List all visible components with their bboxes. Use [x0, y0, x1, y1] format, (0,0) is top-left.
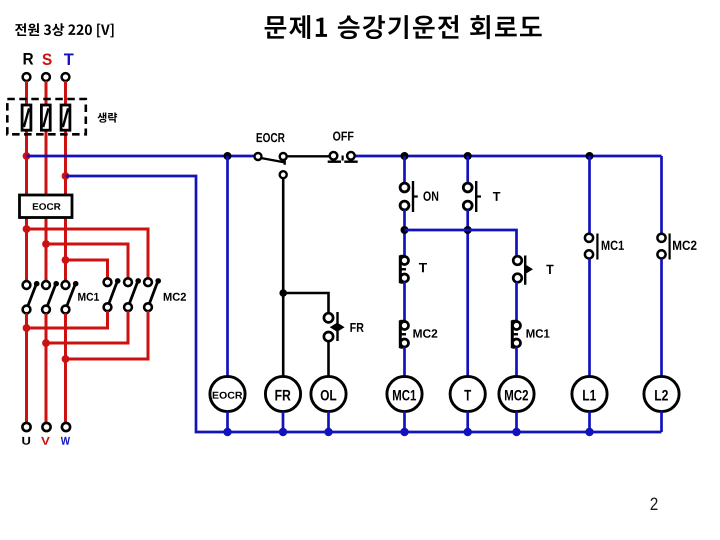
label MC2 (interlock) [413, 329, 437, 338]
terminal T [62, 73, 70, 81]
label OFF [333, 132, 354, 141]
label T [64, 54, 74, 66]
MC2 main contact pole3 [144, 278, 161, 311]
wire MC1 interlock to MC2 coil [515, 347, 518, 377]
node bottom MC2 [512, 428, 520, 436]
node bus-L1 branch [586, 152, 594, 160]
label V [41, 437, 50, 445]
MC1 auxiliary contact (NO) on L1 branch [585, 234, 598, 260]
node bottom T [464, 428, 472, 436]
label R [24, 53, 34, 65]
node bus-EOCR coil [224, 152, 232, 160]
label 생략 [98, 113, 118, 123]
node T-MC2 feed [62, 256, 70, 264]
label: power source 전원 3상 220[V] [15, 23, 114, 37]
coil L2 [644, 376, 679, 411]
FR flasher contact [324, 312, 345, 341]
label T (pushbutton) [493, 192, 500, 201]
wire T to MC2 left column [66, 260, 108, 278]
OFF pushbutton (NC) [328, 152, 358, 162]
coil T [450, 376, 485, 411]
terminal R [23, 73, 31, 81]
MC2 auxiliary contact (NO) on L2 branch [657, 234, 669, 260]
label MC2 (main contacts) [164, 293, 186, 301]
node bottom L1 [585, 428, 593, 436]
wire control bus right [355, 155, 662, 158]
wire return bus (left vertical and bottom bus) [66, 176, 662, 432]
wire T branch upper [466, 156, 469, 183]
MC1 main contact pole2 [42, 281, 59, 313]
wire MC1 aux to L1 coil [588, 259, 591, 377]
node: R tap to control bus [23, 152, 31, 160]
breaker dashed enclosure [7, 99, 86, 134]
terminal V [42, 423, 50, 431]
node bottom EOCR [223, 428, 231, 436]
wire T branch to T coil [466, 210, 469, 377]
wire T phase down [64, 81, 67, 285]
wire EOCR contact to OFF [287, 155, 330, 157]
label MC1 (interlock) [527, 329, 550, 338]
label T (timer contact, MC2 branch) [546, 265, 553, 274]
label T (timer contact, MC1 branch) [419, 263, 427, 272]
label EOCR (contact) [257, 133, 285, 142]
wire EOCR coil to bottom bus [226, 412, 229, 433]
wire U column down [25, 313, 28, 423]
wire MC2 pole3 to W node [66, 311, 149, 359]
MC1 main contact pole3 [62, 281, 79, 313]
node V join [42, 339, 50, 347]
page number 2 [651, 498, 658, 511]
terminal S [42, 73, 50, 81]
title 문제1 승강기운전 회로도 [265, 15, 542, 39]
wire S phase down [45, 81, 48, 285]
node W join [62, 355, 70, 363]
wire to FR flasher contact [283, 293, 328, 314]
coil FR [265, 376, 300, 411]
EOCR overcurrent relay box [20, 195, 73, 218]
node MC1-branch cross [401, 226, 409, 234]
wire control bus left [27, 155, 255, 158]
wire W column down [64, 313, 67, 423]
wire T arrow contact to MC1 interlock [515, 282, 518, 321]
MC1 interlock contact (NC) on MC2 branch [512, 320, 520, 348]
node S-MC2 feed [42, 240, 50, 248]
fuse F1 (R) [22, 105, 31, 130]
label MC1 (aux contact) [602, 241, 624, 250]
wire FR contact to OL coil [327, 341, 330, 376]
fuse F3 (T) [61, 105, 70, 130]
MC2 interlock contact (NC) on MC1 branch [400, 320, 408, 348]
wire ON to T contact [403, 210, 406, 257]
coil L1 [572, 376, 607, 411]
wire L2 branch [660, 156, 663, 234]
terminal U [22, 423, 30, 431]
label MC1 (main contacts) [78, 293, 99, 301]
timer T contact (NC, on-delay, arrow) on MC2 branch [513, 256, 533, 285]
wire L1 coil to bottom bus [588, 412, 591, 433]
wire MC2 aux to L2 coil [660, 259, 663, 377]
wire EOCR NO to FR coil (black) [282, 178, 285, 376]
wire L1 branch upper [588, 156, 591, 234]
node bus-T branch [464, 152, 472, 160]
terminal W [62, 423, 70, 431]
EOCR relay contact (changeover) [255, 153, 287, 178]
node bus-MC1 branch [401, 152, 409, 160]
node bottom MC1 [400, 428, 408, 436]
wire V column down [45, 313, 48, 423]
wire T contact to MC2 interlock [403, 282, 406, 321]
wire T coil to bottom bus [466, 412, 469, 433]
MC1 main contact pole1 [23, 281, 40, 313]
node FR/OL split [279, 289, 287, 297]
wire R to MC2 right column [27, 229, 149, 278]
label S [42, 54, 51, 66]
wire MC2 interlock to MC1 coil [403, 347, 406, 377]
label ON [423, 191, 438, 201]
wire EOCR coil branch [226, 156, 229, 377]
wire OL coil to bottom bus [327, 412, 330, 433]
label W [61, 437, 70, 445]
wire MC2 pole1 to U node [27, 311, 108, 328]
label FR (contact) [350, 323, 363, 332]
timer T contact (NO, on-delay) on MC1 branch [400, 255, 408, 283]
wire MC2 coil to bottom bus [515, 412, 518, 433]
wire FR coil to bottom bus [282, 412, 285, 433]
wire MC1 branch upper [403, 156, 406, 183]
wire MC1 coil to bottom bus [403, 412, 406, 433]
node bottom OL [324, 428, 332, 436]
node R-MC2 feed [23, 225, 31, 233]
coil MC2 [499, 376, 534, 411]
wire R phase down [25, 81, 28, 285]
label MC2 (aux contact) [673, 241, 697, 250]
T pushbutton (NO) [463, 181, 481, 212]
ON pushbutton (NO) [400, 181, 418, 212]
node T-branch cross [464, 226, 472, 234]
label U [22, 437, 30, 445]
wire L2 coil to bottom bus [660, 412, 663, 433]
wire S to MC2 middle column [46, 244, 128, 278]
fuse F2 (S) [41, 105, 50, 130]
coil MC1 [387, 376, 422, 411]
wire MC2 pole2 to V node [46, 311, 128, 343]
wire cross line to MC2 branch [405, 230, 517, 257]
node: T tap to return bus [62, 172, 70, 180]
node U join [23, 324, 31, 332]
MC2 main contact pole1 [104, 278, 121, 311]
coil EOCR [210, 376, 245, 411]
node bottom FR [279, 428, 287, 436]
coil OL [311, 376, 346, 411]
MC2 main contact pole2 [124, 278, 141, 311]
